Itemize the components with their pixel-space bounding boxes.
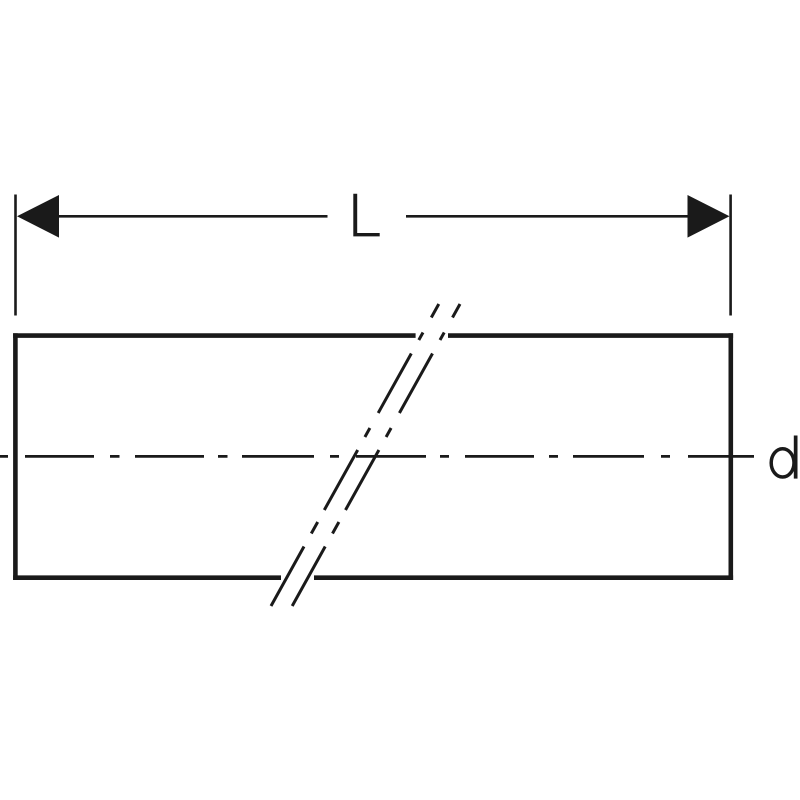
label d bowl — [771, 449, 794, 477]
pipe outline top edge left segment — [13, 333, 416, 338]
arrowhead right — [688, 195, 730, 238]
pipe outline bottom edge left segment — [13, 575, 281, 580]
arrowhead left — [17, 195, 59, 238]
pipe outline top edge right segment — [448, 333, 733, 338]
pipe outline bottom edge right segment — [314, 575, 733, 580]
break line 1 (dash-dot diagonal) — [271, 304, 439, 606]
extension line left — [14, 195, 17, 316]
break line 2 (dash-dot diagonal) — [292, 304, 460, 606]
label d stem — [794, 436, 798, 479]
pipe outline right edge — [728, 333, 733, 580]
label L — [353, 194, 379, 237]
centerline d axis (dash-dot) — [0, 455, 754, 458]
pipe outline left edge — [13, 333, 18, 580]
dimension line L left part — [57, 215, 328, 218]
dimension line L right part — [406, 215, 689, 218]
extension line right — [729, 195, 732, 316]
